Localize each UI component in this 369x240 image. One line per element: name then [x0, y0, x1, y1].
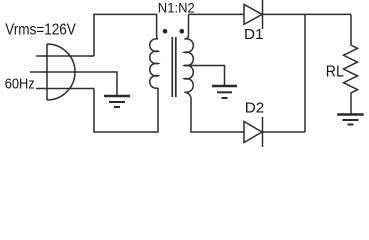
transformer T1 secondary winding [185, 39, 194, 93]
wire D1 output to RL [263, 13, 352, 15]
ground (load) [337, 115, 364, 125]
diode D2 cathode bar [262, 117, 264, 147]
wire secondary top [185, 14, 189, 39]
svg-text:RL: RL [326, 64, 344, 81]
svg-text:60Hz: 60Hz [5, 77, 35, 93]
wire center tap [185, 66, 225, 87]
svg-text:N1:N2: N1:N2 [158, 0, 195, 15]
svg-text:D1: D1 [244, 26, 264, 43]
ground (primary side) [104, 96, 130, 107]
wire D2 output [263, 131, 306, 133]
diode D1 [244, 4, 262, 24]
ground (center tap) [212, 86, 237, 98]
wire middle lead of source [30, 72, 117, 96]
wire output riser [304, 14, 306, 132]
transformer phase dot (primary) [163, 29, 168, 34]
wire bottom lead of source [36, 88, 94, 90]
wire primary top [94, 14, 158, 56]
transformer phase dot (secondary) [180, 29, 185, 34]
svg-text:D2: D2 [245, 100, 264, 117]
wire secondary top to D1 [189, 13, 245, 15]
svg-text:Vrms=126V: Vrms=126V [5, 22, 76, 39]
wire top lead of source [36, 55, 94, 57]
resistor RL [344, 14, 358, 113]
diode D2 [244, 122, 262, 143]
wire primary bottom [94, 88, 158, 132]
AC source V1 body (half-disc) [47, 44, 75, 100]
diode D1 cathode bar [262, 0, 264, 29]
wire secondary bottom [185, 92, 245, 132]
transformer core [172, 37, 176, 97]
transformer T1 primary winding [150, 39, 158, 89]
